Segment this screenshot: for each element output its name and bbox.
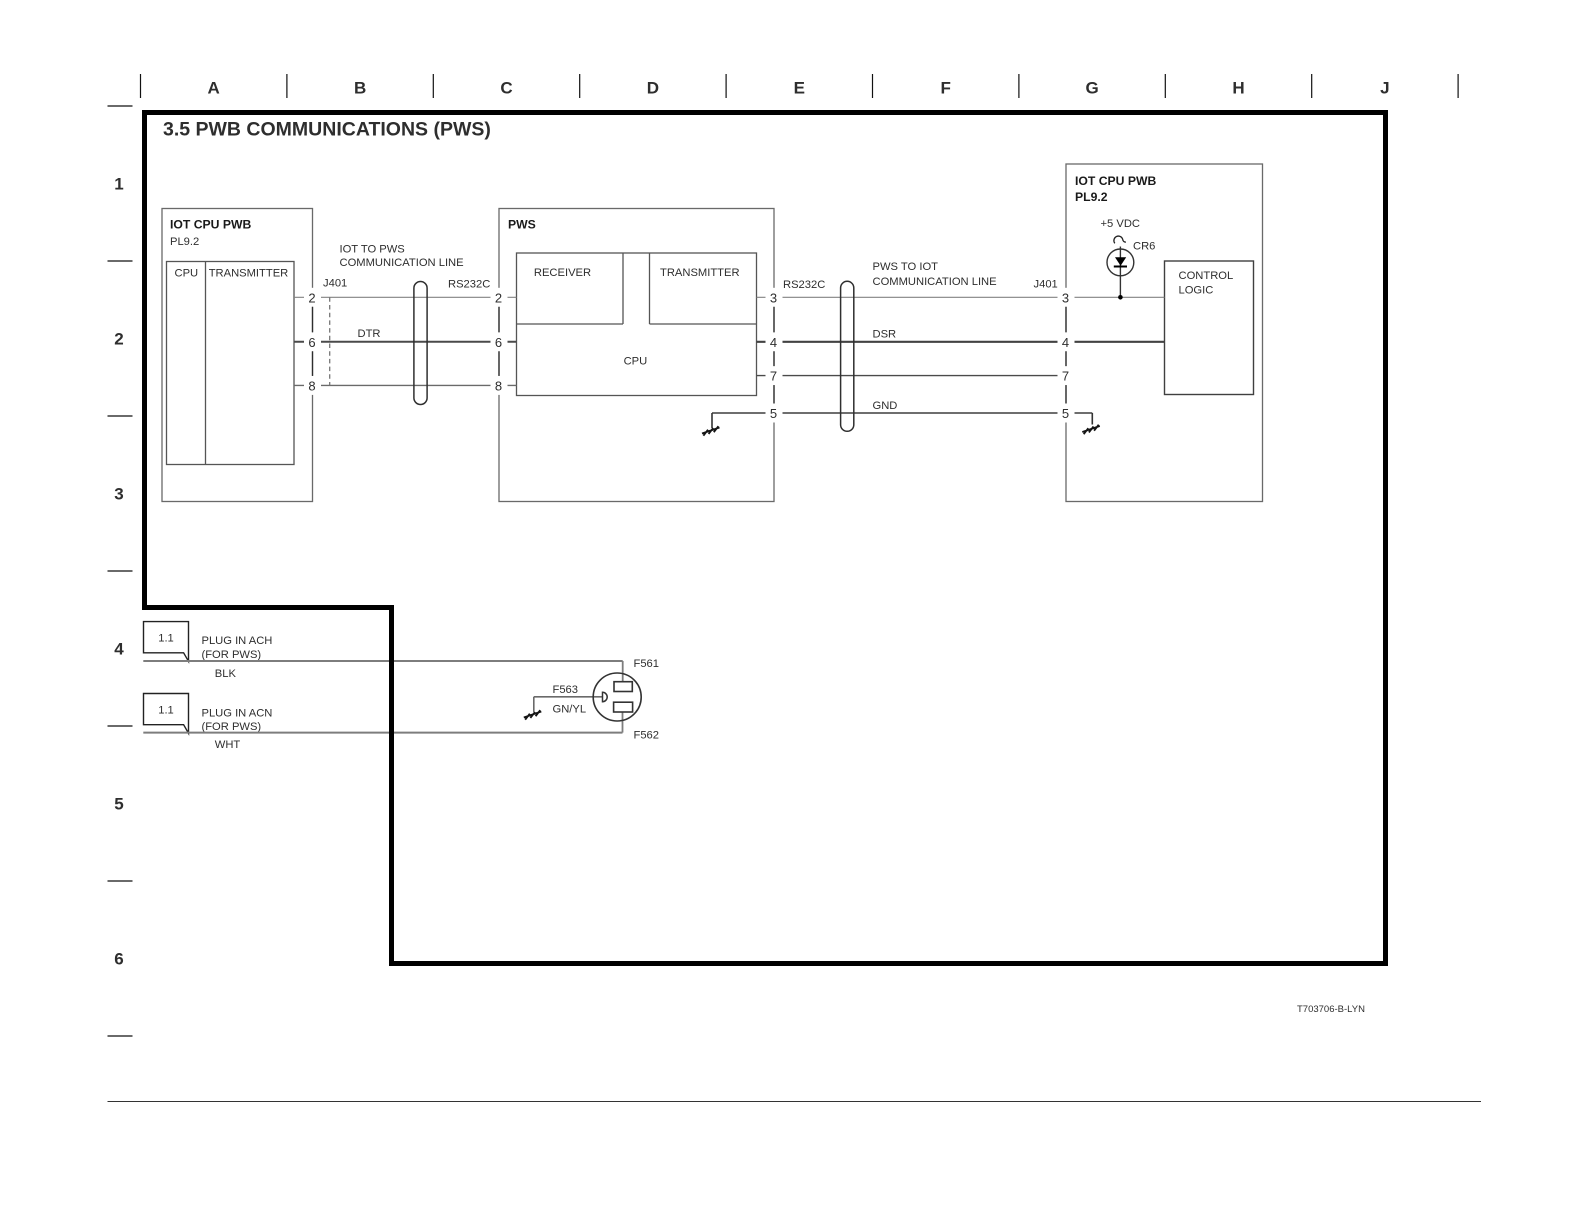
svg-text:H: H xyxy=(1232,79,1244,98)
svg-text:+5 VDC: +5 VDC xyxy=(1101,218,1140,230)
svg-text:3: 3 xyxy=(1062,290,1069,305)
svg-text:3: 3 xyxy=(114,485,123,504)
svg-text:PWS TO IOT: PWS TO IOT xyxy=(873,261,939,273)
svg-text:7: 7 xyxy=(1062,369,1069,384)
svg-text:E: E xyxy=(794,79,805,98)
svg-text:6: 6 xyxy=(308,335,315,350)
svg-text:1.1: 1.1 xyxy=(158,633,174,645)
svg-text:A: A xyxy=(208,79,220,98)
svg-text:2: 2 xyxy=(495,290,502,305)
svg-text:DSR: DSR xyxy=(873,328,897,340)
svg-text:GN/YL: GN/YL xyxy=(553,703,587,715)
svg-text:F561: F561 xyxy=(634,658,660,670)
svg-text:G: G xyxy=(1085,79,1098,98)
svg-text:1.1: 1.1 xyxy=(158,705,174,717)
svg-text:WHT: WHT xyxy=(215,739,241,751)
svg-text:5: 5 xyxy=(1062,406,1069,421)
svg-text:IOT CPU PWB: IOT CPU PWB xyxy=(170,218,251,232)
svg-text:BLK: BLK xyxy=(215,668,237,680)
svg-text:3: 3 xyxy=(770,290,777,305)
svg-text:F563: F563 xyxy=(553,684,579,696)
svg-text:2: 2 xyxy=(308,290,315,305)
svg-text:B: B xyxy=(354,79,366,98)
svg-text:TRANSMITTER: TRANSMITTER xyxy=(660,267,740,279)
svg-text:8: 8 xyxy=(308,378,315,393)
svg-text:J: J xyxy=(1380,79,1389,98)
svg-text:4: 4 xyxy=(114,640,124,659)
svg-text:8: 8 xyxy=(495,378,502,393)
svg-text:PLUG IN ACN: PLUG IN ACN xyxy=(202,707,273,719)
svg-text:TRANSMITTER: TRANSMITTER xyxy=(209,267,289,279)
svg-text:CPU: CPU xyxy=(175,267,199,279)
svg-text:RS232C: RS232C xyxy=(783,279,825,291)
svg-text:RS232C: RS232C xyxy=(448,279,490,291)
svg-text:CPU: CPU xyxy=(624,356,648,368)
svg-text:PWS: PWS xyxy=(508,218,536,232)
svg-text:5: 5 xyxy=(770,406,777,421)
svg-text:COMMUNICATION LINE: COMMUNICATION LINE xyxy=(340,257,464,269)
svg-text:7: 7 xyxy=(770,369,777,384)
svg-text:CR6: CR6 xyxy=(1133,241,1155,253)
svg-text:4: 4 xyxy=(770,335,777,350)
svg-text:3.5 PWB COMMUNICATIONS (PWS): 3.5 PWB COMMUNICATIONS (PWS) xyxy=(163,118,491,140)
svg-text:C: C xyxy=(500,79,512,98)
svg-text:T703706-B-LYN: T703706-B-LYN xyxy=(1297,1004,1365,1015)
svg-text:DTR: DTR xyxy=(358,328,381,340)
svg-text:J401: J401 xyxy=(323,278,347,290)
svg-text:J401: J401 xyxy=(1034,279,1058,291)
svg-text:4: 4 xyxy=(1062,335,1069,350)
svg-text:PL9.2: PL9.2 xyxy=(170,236,199,248)
svg-text:6: 6 xyxy=(114,950,123,969)
svg-text:1: 1 xyxy=(114,175,123,194)
svg-text:F: F xyxy=(941,79,951,98)
svg-text:IOT TO PWS: IOT TO PWS xyxy=(340,244,405,256)
svg-text:CONTROL: CONTROL xyxy=(1179,270,1234,282)
svg-text:2: 2 xyxy=(114,330,123,349)
svg-text:PLUG IN ACH: PLUG IN ACH xyxy=(202,635,273,647)
svg-text:D: D xyxy=(647,79,659,98)
svg-text:6: 6 xyxy=(495,335,502,350)
svg-text:LOGIC: LOGIC xyxy=(1179,285,1214,297)
svg-text:5: 5 xyxy=(114,795,123,814)
svg-text:F562: F562 xyxy=(634,729,660,741)
svg-text:GND: GND xyxy=(873,400,898,412)
svg-text:RECEIVER: RECEIVER xyxy=(534,267,591,279)
svg-text:IOT CPU PWB: IOT CPU PWB xyxy=(1075,174,1156,188)
svg-text:(FOR PWS): (FOR PWS) xyxy=(202,721,262,733)
svg-text:PL9.2: PL9.2 xyxy=(1075,190,1108,204)
svg-text:(FOR PWS): (FOR PWS) xyxy=(202,649,262,661)
svg-text:COMMUNICATION LINE: COMMUNICATION LINE xyxy=(873,276,997,288)
